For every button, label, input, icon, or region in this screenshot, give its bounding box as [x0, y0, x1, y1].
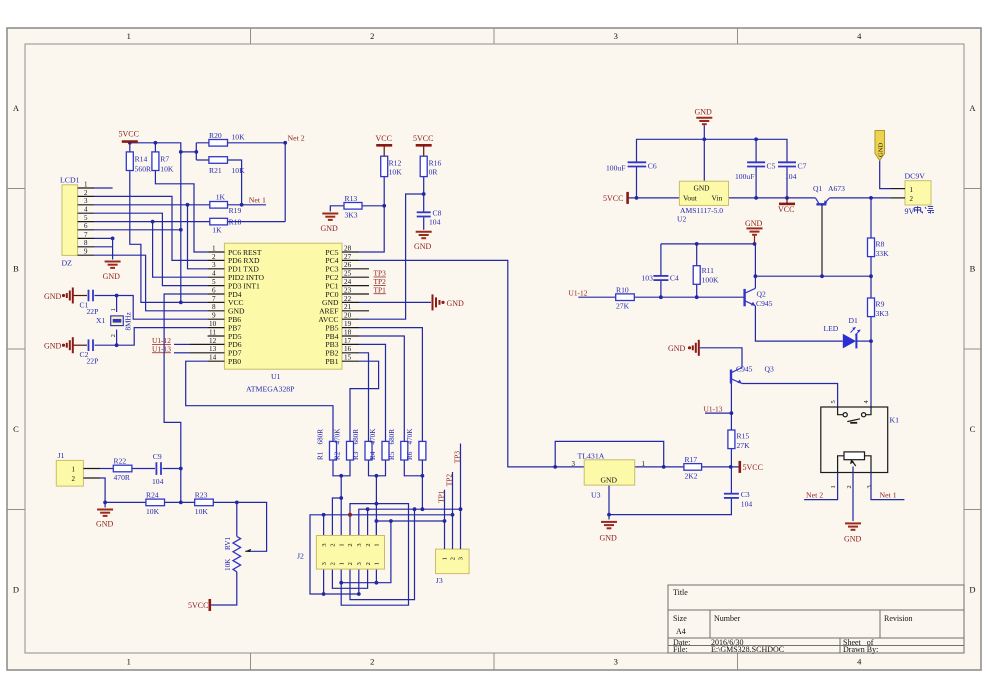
svg-text:ATMEGA328P: ATMEGA328P — [246, 385, 295, 394]
svg-text:R14: R14 — [135, 154, 148, 163]
svg-text:10K: 10K — [232, 132, 246, 141]
wire R17 right to node — [702, 466, 739, 468]
wire testpoint TP3 stub (J3 pin3) — [460, 444, 462, 550]
wire pin15 to R2 — [350, 361, 379, 441]
junction dots power rails — [635, 137, 873, 199]
wire R3 R4 bottoms joined, descender to J2 — [369, 460, 386, 536]
connector DC9V — [891, 171, 935, 216]
svg-text:8MHz: 8MHz — [125, 312, 133, 330]
svg-text:C4: C4 — [670, 273, 679, 282]
wire 5VCC to Vin rail — [628, 167, 680, 198]
wire bottom pin7 row wrap up to TP1 row — [341, 521, 391, 583]
svg-text:1: 1 — [84, 180, 88, 188]
svg-text:2: 2 — [910, 195, 914, 203]
resistor R20 10K — [209, 131, 245, 146]
wire U1-13 stub to R15 top and Q3 base — [705, 384, 731, 431]
svg-text:470R: 470R — [114, 473, 131, 482]
svg-text:1: 1 — [127, 31, 131, 41]
svg-text:5VCC: 5VCC — [188, 601, 208, 610]
svg-text:U1-13: U1-13 — [704, 404, 723, 413]
resistor R14 560R — [126, 152, 152, 173]
ground GND below K1 (earth) — [844, 523, 862, 543]
wire GND flag to DC9V pin1 — [880, 161, 891, 189]
svg-text:GND: GND — [601, 475, 618, 484]
svg-text:18: 18 — [344, 328, 352, 336]
wire R16 bottom node — [359, 177, 424, 320]
junction dots Q2 area — [659, 242, 873, 343]
svg-text:1: 1 — [338, 543, 345, 546]
wire bottom pin2 to bottom pin6 loop — [332, 569, 367, 588]
ground GND bar at pin22 — [433, 294, 465, 310]
wire LCD row2 to pin2 — [94, 196, 208, 260]
svg-text:GND: GND — [96, 520, 114, 529]
net label U1-12 with stub — [152, 336, 190, 345]
svg-text:B: B — [970, 264, 976, 274]
resistor R12 10K — [381, 156, 402, 176]
svg-text:R20: R20 — [209, 131, 222, 140]
svg-text:Size: Size — [673, 614, 687, 623]
svg-text:Number: Number — [714, 614, 741, 623]
wire row to J2 top pin2 (R1R2 net) — [332, 498, 341, 536]
svg-text:22P: 22P — [87, 357, 99, 366]
connector LCD1 — [60, 176, 94, 268]
junction dots top-left — [111, 141, 287, 304]
svg-text:Net 2: Net 2 — [806, 491, 823, 500]
svg-text:R15: R15 — [737, 432, 750, 441]
svg-text:C: C — [970, 424, 976, 434]
svg-text:1: 1 — [830, 485, 837, 488]
wire TP3 row to J2 top pin5 — [359, 509, 461, 535]
resistor R7 10K — [152, 152, 174, 173]
svg-text:16: 16 — [344, 345, 352, 353]
svg-text:3: 3 — [356, 543, 363, 546]
wire J1 pin1 to R22 — [100, 468, 113, 470]
svg-text:3: 3 — [356, 562, 363, 565]
svg-text:5VCC: 5VCC — [413, 134, 433, 143]
wire Q1 emitter to DC9V pin2 and R8 — [830, 198, 891, 238]
svg-text:100uF: 100uF — [735, 172, 754, 181]
wire R21 right to Net1 vertical — [228, 160, 242, 205]
wire testpoint TP1 stub (J3 pin1) — [444, 490, 446, 549]
ground GND below LCD (earth) — [103, 260, 121, 282]
resistor R1 680R — [317, 429, 337, 460]
power 5VCC at RV1 bottom (sideways) — [188, 599, 210, 611]
wire GND stem from row7 — [112, 238, 114, 259]
capacitor C3 104 — [724, 490, 752, 508]
svg-text:2: 2 — [365, 543, 372, 546]
svg-text:Revision: Revision — [884, 614, 912, 623]
power 5VCC right of R17 (sideways) — [740, 461, 763, 473]
wire R13 right to R12 line — [362, 205, 384, 207]
svg-text:GND: GND — [878, 142, 885, 157]
svg-text:Net 1: Net 1 — [249, 196, 266, 205]
wire U3 GND stub — [608, 485, 610, 519]
svg-text:U3: U3 — [591, 490, 601, 499]
wire R1 R2 bottoms joined, descender to J2 — [333, 460, 350, 536]
capacitor C7 104 — [778, 162, 807, 182]
svg-text:Net 1: Net 1 — [880, 491, 897, 500]
ground GND top of power section (earth) — [695, 108, 713, 125]
wire R15 bottom to node, C3 top — [730, 449, 732, 494]
svg-text:GND: GND — [600, 533, 618, 542]
svg-text:2: 2 — [330, 562, 337, 565]
wire J2 top pin6 stub — [367, 509, 369, 535]
resistor R11 100K — [693, 266, 719, 285]
svg-text:GND: GND — [844, 535, 862, 544]
svg-text:3: 3 — [614, 657, 618, 667]
wire pin22 to GND — [359, 301, 431, 303]
svg-text:21: 21 — [344, 303, 352, 311]
svg-text:2: 2 — [347, 562, 354, 565]
svg-text:100uF: 100uF — [606, 164, 625, 173]
wire U3 pin1 to R17 — [635, 466, 684, 468]
svg-text:2: 2 — [84, 189, 88, 197]
svg-text:Q3: Q3 — [765, 365, 774, 374]
ground GND below R13 (earth) — [321, 214, 339, 233]
wire GND node to R24 — [105, 501, 146, 503]
svg-text:1: 1 — [110, 308, 117, 311]
svg-text:C7: C7 — [798, 162, 807, 171]
svg-text:4: 4 — [857, 31, 862, 41]
wire C2 to X1 bottom to pin10 — [95, 328, 208, 346]
capacitor C9 104 — [152, 452, 164, 486]
svg-text:470K: 470K — [369, 428, 377, 445]
svg-text:R13: R13 — [345, 194, 358, 203]
svg-text:10K: 10K — [224, 558, 232, 571]
svg-text:A: A — [13, 103, 20, 113]
svg-text:R1: R1 — [317, 451, 325, 460]
resistor R8 33K — [868, 238, 890, 258]
svg-text:R11: R11 — [702, 266, 715, 275]
svg-text:Q1: Q1 — [813, 184, 822, 193]
wire bracket pin3 to pin1 of U3 — [555, 441, 664, 467]
svg-text:27: 27 — [344, 253, 352, 261]
wire pin18 to R5 — [359, 336, 404, 441]
junction red dot — [348, 513, 352, 517]
wire GND stub — [104, 502, 106, 507]
svg-text:2: 2 — [365, 562, 372, 565]
svg-text:AMS1117-5.0: AMS1117-5.0 — [680, 206, 723, 215]
svg-text:100K: 100K — [702, 275, 719, 284]
svg-text:File:: File: — [673, 645, 688, 654]
IC U1 ATMEGA328P — [190, 243, 369, 393]
svg-text:25: 25 — [344, 270, 352, 278]
wire R18 right — [228, 221, 286, 223]
ground GND below J1 (earth) — [96, 510, 114, 529]
relay coil — [844, 452, 865, 460]
wire LCD row4 to pin5 — [94, 213, 208, 285]
wire Q2 emitter down to LED row — [755, 306, 842, 341]
junction dots U3 area — [553, 465, 732, 516]
svg-text:2: 2 — [212, 253, 216, 261]
capacitor C1 22P — [80, 290, 99, 316]
svg-text:RV1: RV1 — [224, 537, 232, 550]
svg-text:R5: R5 — [388, 451, 396, 460]
wire row to J2 top pin4 and wrap to bottom pin3 — [341, 504, 408, 606]
svg-text:9: 9 — [212, 312, 216, 320]
ground GND below U3 (earth) — [600, 522, 618, 542]
resistor R24 10K — [146, 491, 165, 516]
ground GND above Q2 (earth) — [745, 219, 763, 244]
svg-text:Q2: Q2 — [757, 290, 766, 299]
relay contacts — [838, 407, 871, 423]
svg-text:1K: 1K — [216, 192, 226, 201]
wire GND2 to C2 — [72, 344, 87, 346]
svg-text:D: D — [969, 585, 975, 595]
svg-text:TP2: TP2 — [444, 474, 453, 487]
svg-text:6: 6 — [84, 222, 88, 230]
wire J2 top pin1 stub — [323, 515, 325, 536]
resistor R21 10K — [209, 157, 245, 175]
svg-text:5VCC: 5VCC — [119, 130, 139, 139]
svg-text:3: 3 — [84, 197, 88, 205]
svg-text:14: 14 — [209, 354, 217, 362]
crystal X1 8MHz — [96, 308, 133, 337]
svg-text:1K: 1K — [212, 225, 222, 234]
wire C4 leads — [660, 244, 662, 297]
svg-text:Drawn By:: Drawn By: — [843, 645, 878, 654]
svg-text:1: 1 — [212, 244, 216, 252]
svg-text:Vin: Vin — [712, 194, 723, 203]
svg-text:R8: R8 — [876, 240, 885, 249]
transistor Q3 C945 — [731, 365, 774, 384]
svg-text:R24: R24 — [146, 491, 159, 500]
svg-text:33K: 33K — [876, 249, 890, 258]
power 5VCC left of U2 (sideways) — [603, 192, 628, 204]
svg-text:2: 2 — [370, 657, 374, 667]
wire R23 right to RV1 top and wiper loop — [213, 502, 266, 551]
svg-text:470K: 470K — [406, 428, 414, 445]
wire GND to Q3 collector — [700, 348, 742, 368]
svg-text:5: 5 — [830, 400, 837, 403]
svg-text:R22: R22 — [114, 457, 127, 466]
svg-text:9V: 9V — [905, 207, 915, 216]
svg-text:B: B — [13, 264, 19, 274]
ground GND below C8 (earth) — [414, 232, 432, 251]
svg-text:5: 5 — [84, 214, 88, 222]
svg-text:7: 7 — [84, 231, 88, 239]
potentiometer RV1 10K — [224, 536, 251, 571]
resistor R15 27K — [728, 430, 750, 450]
svg-text:U2: U2 — [677, 214, 686, 223]
wire R20 right to Net2 — [228, 143, 286, 222]
svg-text:27K: 27K — [616, 302, 630, 311]
svg-text:17: 17 — [344, 337, 352, 345]
svg-text:15: 15 — [344, 354, 352, 362]
wire testpoint TP2 stub (J3 pin2) — [452, 472, 454, 549]
wire K1 pin3 to Net 1 — [871, 473, 904, 500]
svg-text:3: 3 — [321, 562, 328, 565]
svg-text:9: 9 — [84, 248, 88, 256]
svg-text:U1: U1 — [271, 372, 281, 381]
svg-text:Net 2: Net 2 — [288, 134, 305, 143]
power VCC above R12 — [376, 134, 393, 156]
junction dots J1 area — [103, 467, 239, 505]
svg-text:680R: 680R — [352, 429, 360, 445]
svg-text:K1: K1 — [890, 416, 900, 425]
svg-text:C: C — [13, 424, 19, 434]
svg-text:GND: GND — [694, 183, 711, 192]
transistor Q2 C945 — [745, 288, 773, 308]
svg-text:1: 1 — [642, 460, 646, 468]
wire net1 — [228, 204, 267, 206]
svg-text:J1: J1 — [58, 451, 65, 460]
svg-text:20: 20 — [344, 312, 352, 320]
wire C4 R11 GND node row — [661, 243, 755, 245]
svg-text:104: 104 — [152, 477, 164, 486]
svg-text:3K3: 3K3 — [876, 309, 889, 318]
svg-text:GND: GND — [44, 342, 62, 351]
power port GND flag (yellow) — [875, 131, 885, 161]
wire R22 to C9 — [132, 468, 155, 470]
svg-text:0R: 0R — [429, 168, 439, 177]
svg-text:J2: J2 — [297, 552, 304, 561]
wire LCD row7 — [94, 237, 113, 239]
svg-text:2: 2 — [450, 557, 457, 560]
resistor R13 3K3 — [344, 194, 362, 220]
wire GND rail (top) — [637, 125, 788, 181]
svg-text:PB0: PB0 — [228, 357, 241, 366]
wire U1-12 stub to R10 — [578, 296, 615, 298]
svg-text:GND: GND — [103, 272, 121, 281]
wire LCD row3 to R19 and pin3 — [94, 205, 210, 269]
svg-text:U1-12: U1-12 — [569, 288, 588, 297]
power 5VCC above R16 — [413, 134, 433, 156]
svg-text:28: 28 — [344, 244, 352, 252]
svg-text:1: 1 — [72, 465, 76, 473]
svg-text:GND: GND — [447, 299, 465, 308]
svg-text:LED: LED — [824, 324, 839, 333]
resistor R17 2K2 — [684, 455, 702, 480]
ground GND left of C2 (bar) — [44, 337, 73, 353]
wire pin19 to R6 — [359, 328, 422, 442]
svg-text:R21: R21 — [209, 166, 222, 175]
resistor R6 470K — [406, 428, 426, 460]
svg-text:8: 8 — [84, 239, 88, 247]
svg-text:13: 13 — [209, 345, 217, 353]
wire RV1 bottom to 5VCC — [211, 572, 237, 605]
svg-text:C945: C945 — [736, 365, 753, 374]
ground GND left of C1 (bar) — [44, 288, 73, 304]
svg-text:3: 3 — [614, 31, 618, 41]
svg-text:24: 24 — [344, 278, 352, 286]
svg-text:R9: R9 — [876, 300, 885, 309]
wire GND1 to C1 — [72, 295, 87, 297]
ground GND bar left of Q3 — [668, 340, 699, 356]
svg-text:R18: R18 — [229, 217, 242, 226]
svg-text:C8: C8 — [433, 208, 442, 217]
svg-text:1: 1 — [374, 562, 381, 565]
wire Q2 collector up to GND node — [754, 244, 756, 288]
wire LCD row9 to pin8 — [94, 255, 208, 311]
svg-text:R17: R17 — [685, 455, 698, 464]
wire LCD row6 — [94, 229, 181, 231]
resistor R16 0R — [420, 156, 441, 176]
wire R11 leads — [696, 244, 698, 297]
svg-text:4: 4 — [84, 206, 88, 214]
transistor Q1 A673 — [813, 184, 845, 276]
wire pin16 to R3 — [359, 353, 369, 442]
wire R7 bottom to pin1 — [155, 171, 207, 253]
svg-text:GND: GND — [745, 219, 763, 228]
capacitor C4 103 — [642, 273, 679, 282]
svg-text:R3: R3 — [352, 451, 360, 460]
wire R8 bottom / R9 top — [870, 257, 872, 298]
wire pin28 up to R12 — [359, 177, 384, 252]
svg-text:104: 104 — [741, 500, 753, 509]
svg-text:A: A — [969, 103, 976, 113]
resistor R18 1K — [210, 217, 242, 234]
svg-text:1: 1 — [374, 543, 381, 546]
resistor R4 470K — [369, 428, 389, 460]
svg-text:R12: R12 — [389, 159, 402, 168]
wire pin14 to R1 — [186, 361, 333, 441]
regulator U2 AMS1117-5.0 — [677, 181, 729, 223]
wire pin17 to R4 — [359, 344, 386, 441]
svg-text:C9: C9 — [153, 452, 162, 461]
wire C9 right to node — [163, 468, 181, 470]
svg-text:Vout: Vout — [683, 194, 698, 203]
power VCC below rail — [778, 198, 795, 214]
svg-text:D1: D1 — [849, 316, 858, 325]
wire LCD row1 — [94, 187, 113, 189]
wire LCD row8 — [94, 246, 113, 248]
svg-text:GND: GND — [321, 224, 339, 233]
svg-text:10K: 10K — [160, 164, 174, 173]
wire K1 pin2 to GND — [852, 467, 854, 522]
svg-text:104: 104 — [785, 172, 797, 181]
svg-text:5: 5 — [212, 278, 216, 286]
svg-text:104: 104 — [429, 218, 441, 227]
svg-text:1: 1 — [338, 562, 345, 565]
svg-text:R7: R7 — [160, 154, 169, 163]
svg-text:A673: A673 — [828, 184, 845, 193]
wire TP2 row with left wrap to bottom pin1 — [310, 515, 453, 594]
svg-text:2: 2 — [370, 31, 374, 41]
svg-text:PB1: PB1 — [325, 357, 338, 366]
svg-text:DC9V: DC9V — [905, 171, 926, 180]
svg-text:680R: 680R — [388, 429, 396, 445]
resistor R2 470K — [334, 428, 354, 460]
wire C3 bottom to GND row — [609, 498, 731, 515]
svg-text:J3: J3 — [436, 576, 443, 585]
svg-text:TP1: TP1 — [436, 490, 445, 503]
svg-text:3: 3 — [458, 557, 465, 560]
svg-text:R23: R23 — [195, 491, 208, 500]
svg-text:10K: 10K — [389, 168, 403, 177]
wire LCD row5 to R18 and pin4 — [94, 222, 210, 278]
wire LED node down to K1 pin4 — [870, 341, 872, 407]
svg-text:R6: R6 — [406, 451, 414, 460]
svg-text:23: 23 — [344, 286, 352, 294]
capacitor C5 100uF — [735, 162, 776, 182]
svg-text:10K: 10K — [195, 507, 209, 516]
svg-text:10K: 10K — [146, 507, 160, 516]
svg-text:2K2: 2K2 — [685, 471, 698, 480]
resistor R19 1K — [210, 192, 242, 214]
svg-text:R4: R4 — [369, 451, 377, 460]
wire C8 to GND — [423, 218, 425, 230]
svg-text:103: 103 — [642, 273, 654, 282]
svg-text:E:\GMS328.SCHDOC: E:\GMS328.SCHDOC — [711, 645, 784, 654]
connector J3 — [436, 444, 470, 586]
svg-text:A4: A4 — [676, 627, 686, 636]
net label U1-13 with stub — [152, 344, 190, 353]
svg-text:R2: R2 — [334, 451, 342, 460]
svg-text:GND: GND — [695, 108, 713, 117]
svg-text:2: 2 — [110, 334, 117, 337]
svg-text:11: 11 — [209, 328, 216, 336]
